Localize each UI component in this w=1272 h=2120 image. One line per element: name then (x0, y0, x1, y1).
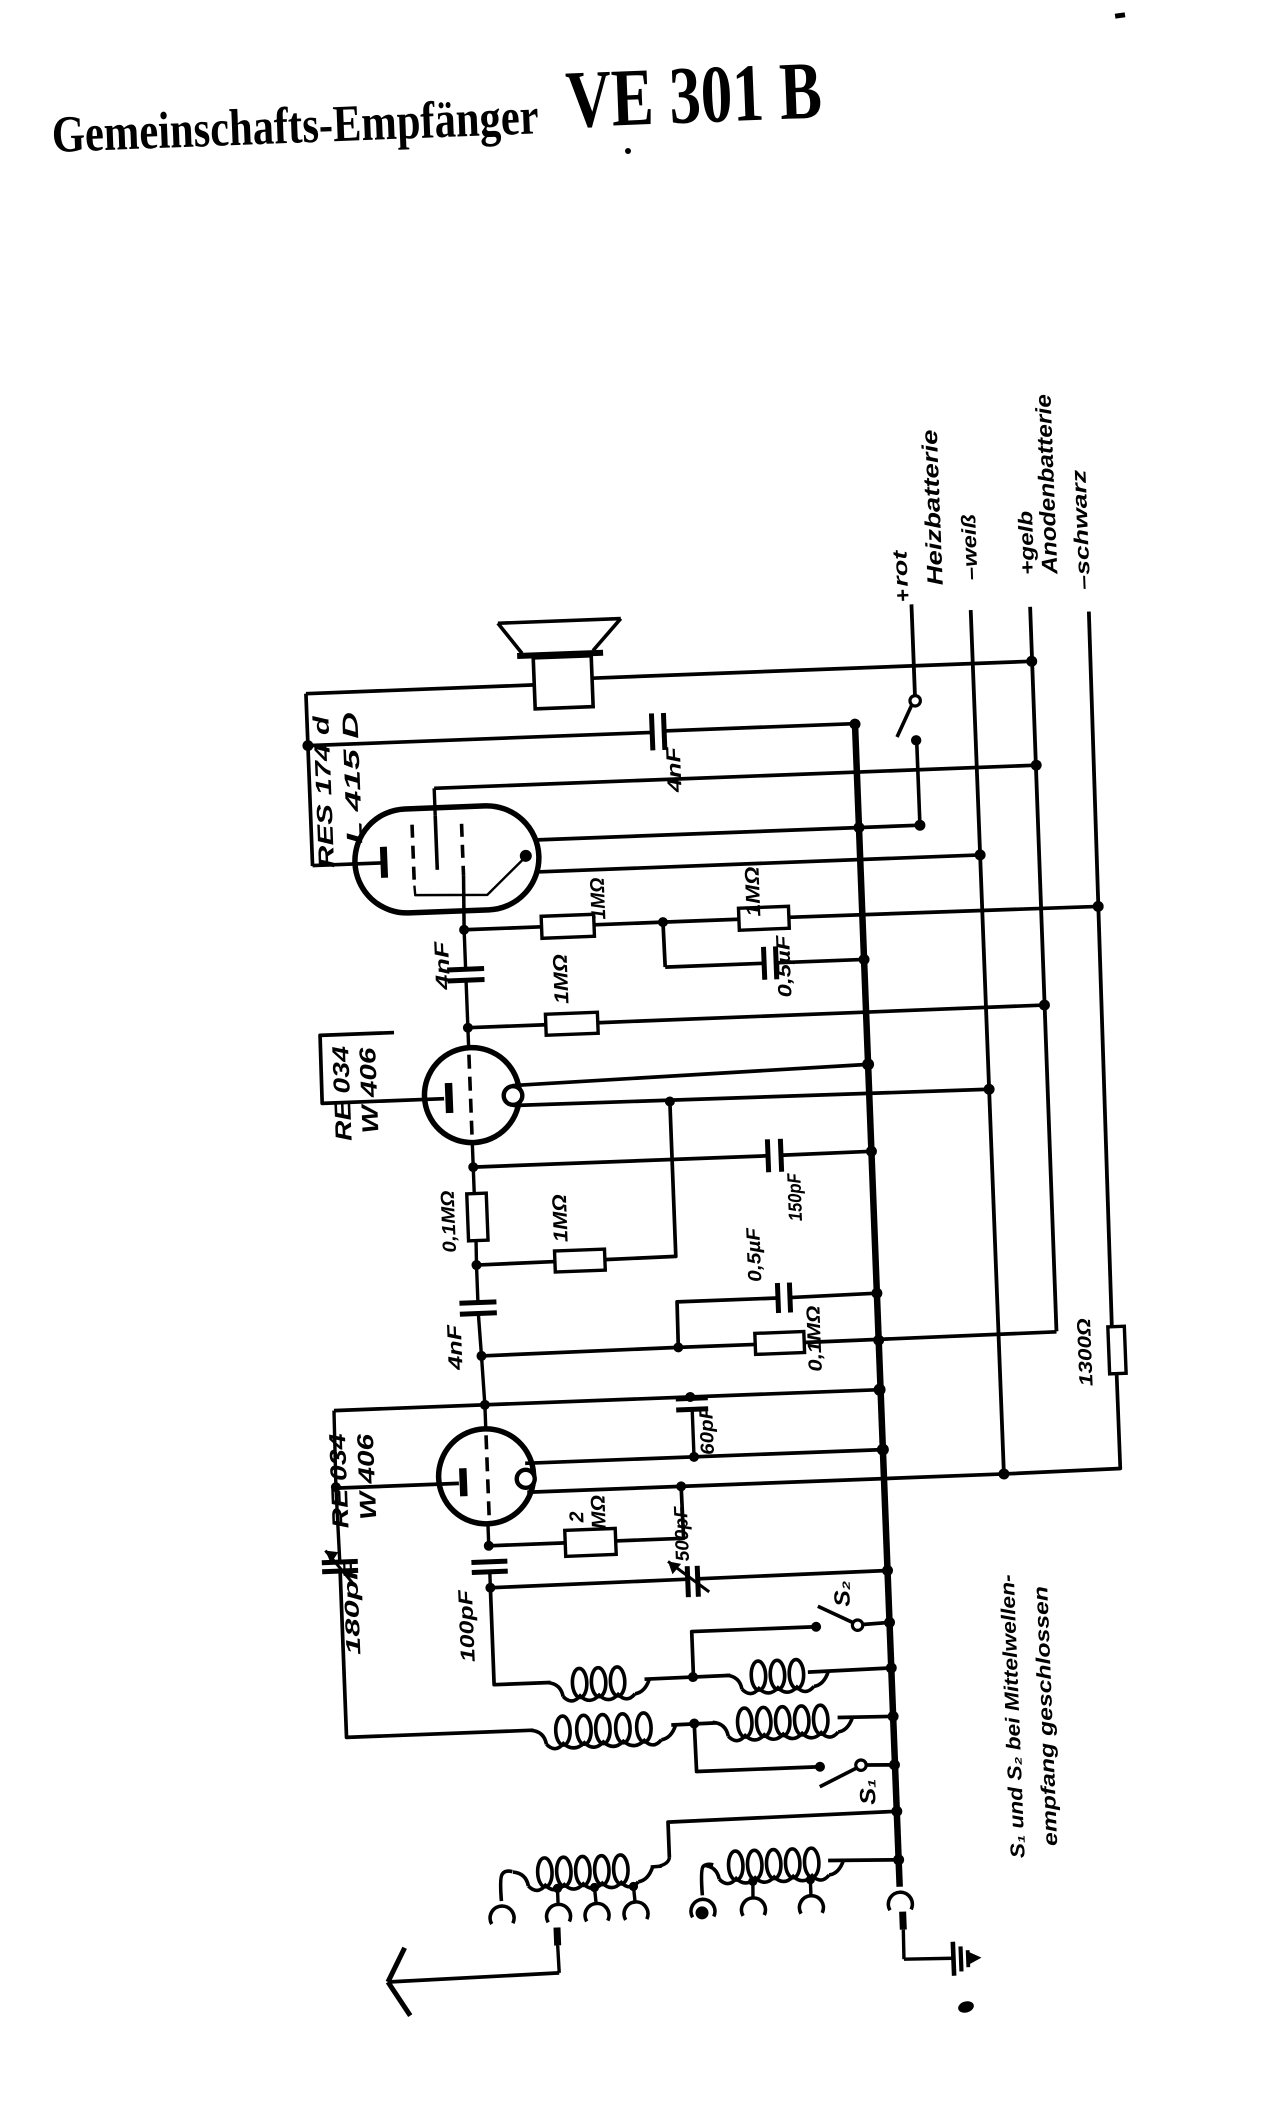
node L4 tap b (806, 1875, 816, 1885)
antenna arrow (387, 1948, 406, 1982)
wire V2 filament right lead to -weiss (513, 1087, 989, 1107)
tube V2 grid wire and dash (466, 1028, 470, 1049)
ground symbol (953, 1942, 954, 1976)
svg-text:MΩ: MΩ (587, 1494, 610, 1529)
node tuned circuit top (485, 1583, 495, 1593)
tube V3 grid dash (483, 1405, 487, 1429)
earth plug pin under cup 8 (899, 1912, 907, 1930)
node filament lead branch (665, 1096, 675, 1106)
node L2a / S1 branch (689, 1718, 699, 1728)
wire L1b to rail (808, 1668, 891, 1672)
capacitor C4 150pF (767, 1139, 768, 1172)
svg-text:100pF: 100pF (455, 1589, 480, 1663)
socket cup 7 (799, 1895, 824, 1914)
node R3 / +gelb (1039, 999, 1050, 1010)
node grid capacitor top junction (459, 925, 469, 935)
wire junction to resistor R1 (464, 927, 541, 930)
node L4 tap a (748, 1877, 758, 1887)
wire to capacitor C4 150pF (473, 1156, 768, 1167)
wire V2 cathode bottom (471, 1142, 475, 1167)
node L3 tap c (629, 1882, 639, 1892)
node C4 / rail (866, 1146, 877, 1157)
coil L1b grid coil (742, 1686, 814, 1694)
node V2 bottom junction (468, 1162, 478, 1172)
coil L1a grid coil (563, 1694, 635, 1702)
wire L4 to rail (828, 1858, 899, 1863)
node AF grid junction (463, 1023, 473, 1033)
wire R1 to node (594, 922, 663, 925)
svg-text:500pF: 500pF (671, 1505, 694, 1562)
capacitor C8 100pF (471, 1561, 507, 1562)
svg-text:W 406: W 406 (354, 1047, 383, 1134)
tube V3 anode circle (516, 1469, 535, 1488)
coil L2b antenna coupling (728, 1732, 838, 1741)
wire L4 tap stems (752, 1881, 753, 1897)
capacitor C7 60pF (690, 1397, 693, 1399)
tube V2 filament bar (448, 1083, 449, 1113)
switch S2 contact node (811, 1622, 821, 1632)
wire left frame vertical of output tube (306, 694, 313, 866)
tube V1 anode dot (520, 850, 532, 862)
tube V1 filament bar (383, 847, 384, 878)
wire to ground symbol (904, 1957, 954, 1960)
node grid riser / tube top (480, 1400, 490, 1410)
switch S0 lever (896, 705, 913, 737)
wire filament lead left (313, 863, 381, 866)
wire detector grid line (334, 1390, 880, 1411)
node filament / -weiss (983, 1084, 994, 1095)
socket cup 2 (546, 1904, 571, 1923)
svg-text:4nF: 4nF (444, 1324, 468, 1372)
svg-text:60pF: 60pF (696, 1405, 719, 1455)
switch S1 lever (819, 1767, 859, 1786)
wire -schwarz battery lead (1084, 612, 1116, 1327)
svg-text:2: 2 (566, 1511, 588, 1524)
node filament lead (331, 1482, 341, 1492)
tube V3 filament bar (463, 1468, 464, 1496)
node C9 / rail (882, 1565, 893, 1576)
svg-text:0,5µF: 0,5µF (743, 1226, 766, 1282)
resistor R2 1M (663, 919, 739, 922)
socket cup 1 (490, 1906, 515, 1925)
tube V2 anode circle (503, 1086, 522, 1105)
node L1b / rail (886, 1662, 897, 1673)
node R2 / -schwarz (1092, 901, 1103, 912)
socket cup 5 (691, 1899, 716, 1918)
svg-text:S₁: S₁ (855, 1778, 881, 1805)
node C7 / anode line (689, 1452, 699, 1462)
node detector anode / rail (877, 1443, 889, 1455)
wire C4 to rail (781, 1151, 871, 1155)
coil L3 antenna input coil (500, 1871, 513, 1901)
tube V1 internal diagonal (414, 859, 525, 897)
svg-text:1MΩ: 1MΩ (550, 953, 574, 1004)
switch S0 pivot circle (910, 695, 921, 706)
capacitor C6 0.5uF (677, 1298, 780, 1347)
node R1/R2/C2 (658, 917, 668, 927)
ink speck bottom (957, 2000, 975, 2015)
resistor R8 2M grid leak (489, 1543, 565, 1546)
resistor R4 0.1M vertical (473, 1167, 474, 1193)
node anode line / +gelb (1026, 656, 1037, 667)
svg-text:150pF: 150pF (784, 1172, 807, 1222)
wire S2 to rail (863, 1622, 890, 1624)
node R6 line / rail (873, 1334, 884, 1345)
wire R6 to +gelb corner (804, 1332, 1056, 1343)
svg-text:–weiß: –weiß (958, 514, 983, 581)
svg-text:+: + (890, 589, 915, 603)
node wire2 branch (302, 740, 313, 751)
svg-text:rot: rot (889, 549, 912, 588)
wire C2 to anode rail (776, 959, 864, 962)
resistor R7 1300 (1108, 1326, 1126, 1374)
node C2 / rail (858, 954, 869, 965)
wire C1 to anode rail (664, 724, 854, 731)
node grid line / +gelb (1031, 759, 1042, 770)
socket cup 8 earth (888, 1892, 913, 1911)
wire node down to C2 (663, 922, 665, 967)
wire output filament lead right (537, 855, 980, 872)
antenna plug pin (553, 1927, 561, 1945)
tube V1 grid dashes (412, 825, 414, 886)
svg-text:–schwarz: –schwarz (1068, 469, 1095, 590)
tube V2 RE034 W406 outline (423, 1046, 522, 1145)
svg-text:0,5µF: 0,5µF (773, 933, 796, 998)
wire V3 filament right lead (527, 1474, 1004, 1492)
ink speck below title (625, 148, 631, 154)
wire +rot battery lead (911, 604, 914, 695)
node L2b / rail (887, 1711, 898, 1722)
wire detector grid riser (481, 1356, 484, 1405)
switch S0 contact node (911, 735, 922, 746)
svg-text:VE 301 B: VE 301 B (564, 44, 823, 145)
svg-text:1MΩ: 1MΩ (587, 877, 611, 920)
wire filament lead into tube (336, 1483, 459, 1488)
wire anode top-left to speaker (306, 685, 534, 694)
tube V3 RE034 W406 outline (437, 1427, 536, 1526)
socket cup 4 (624, 1901, 649, 1920)
wire between antenna coil halves (671, 1723, 716, 1725)
switch S2 lever (818, 1605, 855, 1625)
wire speaker to +gelb (592, 661, 1032, 678)
capacitor C9 500pF variable (687, 1566, 688, 1597)
wire -weiss battery lead (971, 610, 1004, 1474)
wire R5 up to filament line (599, 1102, 676, 1260)
capacitor C3 4nF coupling (464, 930, 466, 969)
switch S1 pivot circle (856, 1760, 867, 1771)
wire between grid coil halves (644, 1675, 730, 1679)
wire V3 cathode bottom (486, 1523, 490, 1545)
wire node to R6 line (481, 1347, 678, 1356)
tube V2 label frame (320, 1031, 445, 1104)
wire antenna riser (668, 1811, 898, 1857)
wire to 1300 ohm corner (1000, 1374, 1120, 1474)
resistor R1 1M (541, 914, 594, 938)
capacitor C5 4nF (476, 1265, 477, 1302)
wire L2b to rail (838, 1715, 893, 1718)
wire2 to coupling cap 4nF C1 (308, 732, 652, 745)
node below C5 (476, 1351, 486, 1361)
svg-text:0,1MΩ: 0,1MΩ (438, 1190, 461, 1253)
node below R4 (471, 1260, 481, 1270)
node grid cap junction (484, 1541, 494, 1551)
wire S1 to rail (866, 1764, 895, 1766)
node grid coil tap / S2 (688, 1672, 698, 1682)
switch S2 pivot circle (852, 1620, 863, 1631)
node 60pF branch (685, 1392, 695, 1402)
svg-text:1300Ω: 1300Ω (1074, 1318, 1098, 1387)
svg-text:L 415 D: L 415 D (337, 711, 367, 844)
wire R3 to +gelb (598, 1005, 1045, 1023)
node S1 / rail (889, 1759, 900, 1770)
wire R2 to -schwarz (789, 905, 1098, 918)
tube V1 RES174d L415D outline (353, 804, 541, 915)
node riser / rail (891, 1806, 902, 1817)
wire grid line of output tube (to +gelb) (434, 765, 1036, 788)
capacitor C10 180pF variable (336, 1487, 340, 1562)
svg-text:S₂: S₂ (829, 1580, 855, 1607)
resistor R5 1M (476, 1262, 554, 1266)
wire C9 to rail (698, 1571, 888, 1579)
speaker (498, 619, 621, 624)
wire switch to output anode line (917, 740, 920, 825)
ink speck top right (1115, 12, 1126, 18)
wire V2 anode to rail (512, 1064, 868, 1085)
wire +gelb battery lead (1029, 607, 1058, 1332)
tube V3 label frame (333, 1411, 337, 1487)
earth plug dot in cup 5 (695, 1906, 708, 1919)
resistor R6 0.1M (678, 1344, 755, 1347)
node grid line / rail (873, 1383, 885, 1395)
node filament lead / -weiss (974, 849, 985, 860)
switch S1 contact node (815, 1762, 825, 1772)
capacitor C2 0.5uF (763, 947, 764, 980)
node L4 / rail (893, 1854, 904, 1865)
node top of anode rail (849, 718, 860, 729)
node R6 / C6 branch (673, 1342, 683, 1352)
wire R8 up to filament line (614, 1486, 684, 1541)
node L3 tap a (553, 1884, 563, 1894)
coil L2a antenna coupling (546, 1740, 661, 1749)
socket cup 3 (585, 1903, 610, 1922)
antenna lead wire (388, 1973, 559, 1982)
svg-text:1MΩ: 1MΩ (549, 1193, 573, 1242)
node C6 / rail (871, 1287, 882, 1298)
node grid leak return (676, 1481, 686, 1491)
svg-text:4nF: 4nF (663, 746, 687, 794)
svg-text:RE 034: RE 034 (327, 1045, 357, 1141)
node -weiss end (998, 1468, 1009, 1479)
capacitor C1 4nF (651, 713, 652, 750)
wire anode rail vertical (thick) (855, 724, 900, 1887)
svg-text:1MΩ: 1MΩ (741, 866, 765, 917)
wire tap stems (556, 1888, 560, 1904)
socket cup 6 (741, 1897, 766, 1916)
svg-text:4nF: 4nF (431, 940, 455, 991)
wire to variable capacitor C9 (490, 1579, 687, 1588)
resistor R3 1M grid leak (468, 1025, 546, 1028)
svg-text:W 406: W 406 (352, 1433, 381, 1520)
node anode lead / rail (853, 822, 864, 833)
switch S1 wire (694, 1719, 820, 1772)
node anode lead / switch branch (914, 820, 925, 831)
wire 180pF down to coil L2a (340, 1564, 533, 1738)
svg-text:0,1MΩ: 0,1MΩ (803, 1305, 827, 1372)
node V2 anode / rail (862, 1058, 874, 1070)
node S2 / rail (884, 1617, 895, 1628)
wire output anode lead (534, 825, 920, 840)
coil L4 earth coil (701, 1864, 714, 1895)
wire detector anode line (525, 1450, 883, 1464)
switch S2 wire (692, 1627, 818, 1677)
node L3 tap b (590, 1883, 600, 1893)
wire grid coil feed (490, 1586, 550, 1685)
